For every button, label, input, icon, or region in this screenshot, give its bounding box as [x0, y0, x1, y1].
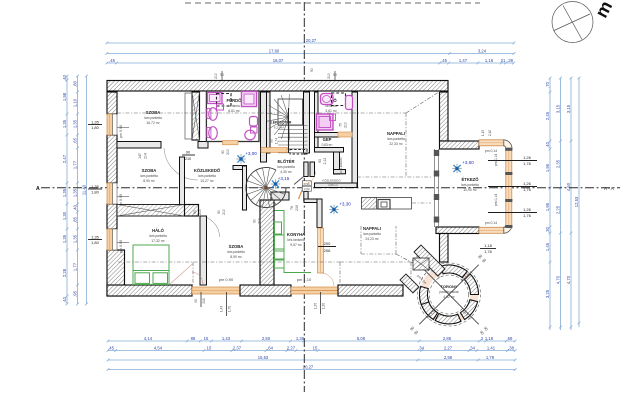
- svg-text:22,33 m²: 22,33 m²: [389, 142, 403, 146]
- svg-text:6,27 m²: 6,27 m²: [274, 126, 284, 130]
- svg-text:12,53: 12,53: [574, 196, 579, 207]
- svg-text:2,37: 2,37: [233, 345, 242, 350]
- svg-text:1,35: 1,35: [72, 234, 77, 243]
- konyha door leaf orange: [299, 189, 303, 199]
- outer wall bottom segment 3: [338, 285, 403, 296]
- svg-text:210: 210: [344, 122, 348, 128]
- svg-text:,38: ,38: [508, 345, 514, 350]
- svg-text:3,25: 3,25: [545, 289, 550, 298]
- svg-text:21: 21: [501, 58, 506, 63]
- svg-text:15: 15: [313, 345, 318, 350]
- left dimension line 1: [66, 76, 68, 304]
- svg-text:3,24: 3,24: [478, 48, 487, 53]
- svg-text:,40: ,40: [72, 204, 77, 210]
- window W2 left: [107, 183, 113, 204]
- svg-text:,45: ,45: [441, 58, 447, 63]
- nappali dashed line y177: [357, 176, 431, 178]
- thick wall V3 konyha: [260, 200, 274, 285]
- svg-text:padlóburkolat: padlóburkolat: [439, 290, 458, 294]
- svg-text:1,38: 1,38: [296, 336, 305, 341]
- dashed appliance box: [217, 94, 232, 107]
- svg-text:SZOBA: SZOBA: [142, 168, 157, 173]
- svg-text:2,28: 2,28: [62, 268, 67, 277]
- svg-text:17,60: 17,60: [269, 48, 280, 53]
- svg-text:1,76: 1,76: [523, 187, 532, 192]
- svg-text:KÖZLEKEDŐ: KÖZLEKEDŐ: [322, 178, 341, 183]
- svg-text:A: A: [36, 186, 40, 192]
- bottom door sill D1 (pm 0,90): [192, 287, 240, 294]
- top dimension line 2 (17,60 / 3,24): [107, 53, 514, 55]
- svg-text:GÉP: GÉP: [323, 137, 332, 142]
- svg-text:2,98: 2,98: [444, 355, 453, 360]
- etkezo protrusion bottom wall: [436, 227, 479, 234]
- svg-text:2,10: 2,10: [488, 130, 492, 136]
- svg-text:lam.parketta: lam.parketta: [144, 116, 162, 120]
- wall H5 under kozlekedo2: [315, 183, 358, 188]
- chimney shaft wall V1: [192, 92, 200, 140]
- glass wall right of nappali: [434, 149, 436, 227]
- interior wall H1: [117, 142, 161, 149]
- svg-text:1,98: 1,98: [62, 92, 67, 101]
- kitchen counter green: [275, 211, 312, 273]
- etkezo orange wall right bar: [506, 149, 512, 227]
- svg-text:4,60: 4,60: [566, 182, 571, 191]
- 1,36 door box: [302, 181, 311, 186]
- svg-text:8,90 m²: 8,90 m²: [143, 179, 155, 183]
- left dimension line 3: [86, 76, 88, 304]
- svg-text:,80: ,80: [72, 80, 77, 86]
- wall V6 right of stair: [304, 92, 310, 153]
- svg-text:2,06 m²: 2,06 m²: [328, 183, 338, 187]
- svg-text:1,80: 1,80: [91, 190, 100, 195]
- svg-text:1,35: 1,35: [62, 119, 67, 128]
- svg-text:1,76: 1,76: [484, 249, 493, 254]
- svg-text:4,70: 4,70: [555, 275, 560, 284]
- svg-text:NAPPALI: NAPPALI: [387, 131, 405, 136]
- svg-text:5,06: 5,06: [357, 336, 366, 341]
- svg-text:8,90 m²: 8,90 m²: [230, 255, 242, 259]
- svg-text:1,35: 1,35: [91, 119, 100, 124]
- svg-text:214: 214: [144, 153, 148, 159]
- furdo room walls: [206, 91, 259, 142]
- svg-text:10,90 m²: 10,90 m²: [463, 188, 477, 192]
- svg-text:3,15: 3,15: [555, 104, 560, 113]
- svg-text:3,15: 3,15: [566, 104, 571, 113]
- svg-text:2,25: 2,25: [555, 205, 560, 214]
- svg-text:2,62: 2,62: [304, 187, 310, 191]
- svg-text:1,35: 1,35: [91, 234, 100, 239]
- svg-text:90: 90: [270, 139, 274, 143]
- svg-text:90: 90: [217, 210, 221, 214]
- svg-text:2,47: 2,47: [62, 154, 67, 163]
- futo shower: [317, 114, 334, 130]
- svg-text:90: 90: [186, 151, 190, 155]
- svg-text:4,30 m²: 4,30 m²: [280, 170, 292, 174]
- svg-text:88: 88: [191, 336, 196, 341]
- svg-text:2,12: 2,12: [323, 158, 327, 165]
- small pink cabinet: [217, 104, 224, 110]
- toilet: [251, 127, 258, 133]
- svg-text:1,77: 1,77: [72, 160, 77, 169]
- furdo door sill in H1: [223, 141, 239, 145]
- svg-text:,70: ,70: [545, 81, 550, 87]
- bottom dimension line 4 (20,27): [108, 369, 515, 371]
- svg-text:24,23 m²: 24,23 m²: [365, 237, 379, 241]
- svg-text:ELŐTÉR: ELŐTÉR: [278, 159, 295, 164]
- svg-text:3,61 m²: 3,61 m²: [325, 109, 337, 113]
- svg-text:,34: ,34: [418, 345, 424, 350]
- svg-text:4,54: 4,54: [154, 345, 163, 350]
- outer wall right upper: [440, 92, 449, 141]
- svg-text:1,74: 1,74: [275, 138, 279, 144]
- svg-text:lam.parketta: lam.parketta: [461, 183, 479, 187]
- svg-text:1,77: 1,77: [72, 262, 77, 271]
- svg-text:,45: ,45: [109, 58, 115, 63]
- svg-text:4,14: 4,14: [144, 336, 153, 341]
- tower neck wall lower: [400, 274, 419, 293]
- bottom dimension line 1: [108, 340, 515, 342]
- futo basin: [346, 96, 353, 110]
- H1 door arc: [164, 148, 198, 180]
- svg-text:pm 0,90: pm 0,90: [119, 240, 123, 253]
- svg-text:+3,00: +3,00: [245, 151, 257, 156]
- bath vanity: [208, 93, 223, 104]
- nappali lower dashed rect: [340, 261, 411, 263]
- svg-text:4,70: 4,70: [566, 275, 571, 284]
- svg-text:,30: ,30: [545, 226, 550, 232]
- elevation marker +3,15: [271, 179, 281, 189]
- svg-text:,40: ,40: [62, 74, 67, 80]
- svg-text:1,43: 1,43: [220, 306, 224, 312]
- svg-text:pm 0,14: pm 0,14: [485, 149, 497, 153]
- right dimension line 4 (overall): [578, 78, 580, 327]
- svg-text:pm 1,10: pm 1,10: [297, 277, 312, 282]
- svg-text:75: 75: [339, 123, 343, 127]
- svg-text:210: 210: [198, 209, 202, 215]
- svg-text:2,86: 2,86: [443, 336, 452, 341]
- kneewall dashed line lower: [118, 261, 340, 263]
- bed halo: [133, 245, 169, 285]
- faint top cropped line: [185, 2, 480, 4]
- svg-text:kéz.kerámia: kéz.kerámia: [287, 238, 304, 242]
- futo toilet: [321, 94, 334, 105]
- wall V5 left of stair: [261, 92, 267, 162]
- stair room door orange: [261, 148, 287, 153]
- svg-text:6,61 m²: 6,61 m²: [228, 109, 240, 113]
- svg-text:59: 59: [508, 336, 513, 341]
- svg-text:1,30: 1,30: [62, 211, 67, 220]
- svg-text:1,15: 1,15: [481, 130, 485, 136]
- left dimension line 2: [77, 76, 79, 304]
- svg-text:,45: ,45: [108, 345, 114, 350]
- svg-text:1,95: 1,95: [545, 202, 550, 211]
- nappali left wall V8: [352, 92, 358, 188]
- svg-text:90: 90: [221, 150, 225, 154]
- outer wall top: [107, 81, 448, 92]
- bottom dimension line 2: [108, 350, 515, 352]
- svg-text:15,53: 15,53: [258, 355, 269, 360]
- futo dashed box: [332, 93, 346, 106]
- eloter right wall jambs: [304, 162, 308, 177]
- svg-text:1,80: 1,80: [91, 240, 100, 245]
- section line vertical: [303, 2, 305, 392]
- futo/gep left wall V7: [315, 92, 319, 152]
- section line A-A horizontal: [41, 187, 620, 189]
- szoba1 cupboard: [185, 93, 192, 139]
- svg-text:,40: ,40: [62, 296, 67, 302]
- kneewall dashed diagonal to corner: [406, 91, 441, 113]
- svg-text:1,70: 1,70: [228, 306, 232, 312]
- svg-text:1,16: 1,16: [485, 58, 494, 63]
- svg-text:KÖZLEKEDŐ: KÖZLEKEDŐ: [338, 157, 343, 175]
- svg-text:1,80: 1,80: [91, 125, 100, 130]
- svg-text:2,50: 2,50: [262, 336, 271, 341]
- svg-text:ÉTKEZŐ: ÉTKEZŐ: [462, 177, 480, 182]
- top dimension line 3 (,45 16,07 ...): [107, 62, 514, 64]
- svg-text:90: 90: [310, 68, 314, 72]
- elevation marker +3,60: [452, 164, 462, 174]
- svg-text:210: 210: [327, 73, 331, 79]
- interior wall V2: [200, 216, 207, 285]
- dashed box right of stair door: [290, 150, 307, 155]
- svg-text:210: 210: [222, 209, 226, 215]
- right dimension line 2: [560, 78, 562, 330]
- svg-text:1,35: 1,35: [72, 188, 77, 197]
- svg-text:210: 210: [202, 298, 206, 304]
- svg-text:,64: ,64: [267, 345, 273, 350]
- svg-text:,95: ,95: [72, 290, 77, 296]
- svg-text:1,35: 1,35: [314, 303, 318, 309]
- svg-text:+3,60: +3,60: [462, 160, 474, 165]
- svg-text:10,27 m²: 10,27 m²: [200, 179, 214, 183]
- svg-text:+3,30: +3,30: [339, 202, 351, 207]
- svg-text:1,18: 1,18: [484, 243, 493, 248]
- outer wall bottom segment 2: [240, 285, 291, 296]
- svg-text:90: 90: [253, 219, 257, 223]
- svg-text:16,72 m²: 16,72 m²: [146, 121, 160, 125]
- window W1 left (135/180): [107, 114, 113, 135]
- svg-text:,38: ,38: [507, 58, 513, 63]
- eloter east door leaf: [294, 177, 304, 185]
- svg-text:1,79: 1,79: [486, 355, 495, 360]
- svg-text:HÁLÓ: HÁLÓ: [152, 228, 165, 233]
- svg-text:90: 90: [193, 210, 197, 214]
- neck x-shaft: [413, 258, 429, 270]
- svg-text:,85: ,85: [72, 216, 77, 222]
- svg-text:16,07: 16,07: [273, 58, 284, 63]
- etkezo orange wall top bar: [479, 140, 504, 146]
- svg-text:1,76: 1,76: [523, 161, 532, 166]
- compass rose: [552, 2, 593, 43]
- svg-text:LÉPCSŐTÉR: LÉPCSŐTÉR: [271, 120, 292, 125]
- shower cabin: [242, 92, 257, 107]
- eloter west wall V4: [233, 166, 247, 170]
- svg-text:76: 76: [290, 206, 294, 210]
- svg-text:1,18: 1,18: [485, 336, 494, 341]
- svg-text:15: 15: [204, 336, 209, 341]
- svg-text:210: 210: [214, 73, 218, 79]
- konyha top wall left piece: [271, 192, 289, 200]
- svg-text:lam.parketta: lam.parketta: [363, 232, 381, 236]
- svg-text:SZOBA: SZOBA: [146, 110, 161, 115]
- svg-text:1,26: 1,26: [523, 181, 532, 186]
- gep bottom wall: [315, 148, 344, 153]
- svg-text:1,43: 1,43: [222, 336, 231, 341]
- konyha top wall: [304, 199, 322, 203]
- interior wall H2 with shaft: [117, 205, 185, 217]
- svg-text:90: 90: [194, 299, 198, 303]
- right dimension line 3: [570, 78, 572, 330]
- svg-text:1,26: 1,26: [523, 207, 532, 212]
- svg-text:9,57 m²: 9,57 m²: [290, 243, 302, 247]
- svg-text:210: 210: [295, 205, 299, 211]
- etkezo protrusion top wall: [440, 141, 480, 149]
- svg-text:200: 200: [324, 241, 331, 246]
- svg-text:93: 93: [318, 159, 322, 163]
- svg-text:pm 0,14: pm 0,14: [485, 221, 497, 225]
- kneewall dashed line upper: [117, 112, 406, 114]
- window W3 left: [107, 229, 113, 250]
- svg-text:pm 0,90: pm 0,90: [219, 277, 234, 282]
- door arcs: [192, 272, 203, 284]
- svg-text:210: 210: [258, 218, 262, 224]
- kozlekedo2 L wall: [334, 152, 340, 174]
- svg-text:lam.parketta: lam.parketta: [140, 174, 158, 178]
- kitchen island: [362, 198, 412, 210]
- svg-text:pm 0,14: pm 0,14: [494, 154, 498, 166]
- kneewall dashed vertical: [405, 113, 407, 177]
- elevation marker +3,00: [236, 154, 246, 164]
- napozo dashed region: [360, 226, 362, 254]
- svg-text:11,40: 11,40: [81, 184, 86, 195]
- svg-text:147: 147: [138, 153, 142, 159]
- outer wall right lower (to tower): [440, 234, 449, 263]
- H2 door arc into halo: [199, 216, 220, 237]
- svg-text:lam.parketta: lam.parketta: [277, 165, 295, 169]
- svg-text:pm 0,90: pm 0,90: [119, 125, 123, 138]
- svg-text:1,47: 1,47: [459, 58, 468, 63]
- svg-text:20,27: 20,27: [306, 38, 317, 43]
- right dimension line 1: [549, 78, 551, 330]
- outer wall left (3 segments between windows): [107, 92, 117, 114]
- svg-text:lam.parketta: lam.parketta: [149, 234, 167, 238]
- svg-text:FÜRDŐ: FÜRDŐ: [227, 98, 243, 103]
- svg-text:1,45: 1,45: [545, 242, 550, 251]
- svg-text:210: 210: [226, 149, 230, 155]
- svg-text:2,27: 2,27: [287, 345, 296, 350]
- svg-text:2,35: 2,35: [555, 159, 560, 168]
- svg-text:2,27: 2,27: [444, 345, 453, 350]
- svg-text:210: 210: [185, 157, 191, 161]
- outer wall bottom segment 1: [107, 285, 192, 296]
- top dimension line 1 (20,27): [107, 42, 514, 44]
- svg-text:1,95: 1,95: [545, 163, 550, 172]
- washbasin ovals: [207, 109, 211, 119]
- svg-text:15: 15: [207, 345, 212, 350]
- svg-text:206: 206: [324, 248, 331, 253]
- svg-text:kerámia: kerámia: [228, 104, 240, 108]
- svg-text:1,35: 1,35: [62, 234, 67, 243]
- etkezo rounded corner bottom: [504, 226, 512, 234]
- corridor west wall: [180, 157, 185, 211]
- svg-text:1,26: 1,26: [523, 155, 532, 160]
- konyha right glass band: [318, 228, 324, 273]
- svg-text:,34: ,34: [469, 345, 475, 350]
- svg-text:1,76: 1,76: [523, 213, 532, 218]
- svg-text:,40: ,40: [545, 141, 550, 147]
- svg-text:17,32 m²: 17,32 m²: [151, 239, 165, 243]
- svg-text:A - A: A - A: [604, 186, 615, 191]
- svg-text:0,83 m²: 0,83 m²: [322, 143, 333, 147]
- 2,62 box: [302, 186, 311, 191]
- spiral stair: [246, 168, 286, 208]
- bottom door sill D2 (pm 1,10): [291, 287, 338, 294]
- tower neck wall upper: [414, 245, 445, 276]
- svg-text:1,10: 1,10: [72, 98, 77, 107]
- svg-text:1,30: 1,30: [322, 303, 326, 309]
- futo door orange: [338, 132, 352, 137]
- svg-text:lam.parketta: lam.parketta: [227, 250, 245, 254]
- svg-text:+3,15: +3,15: [278, 176, 290, 181]
- svg-text:TORONY: TORONY: [440, 284, 457, 289]
- svg-text:1,41: 1,41: [487, 345, 496, 350]
- halo dashed vertical: [192, 262, 194, 285]
- svg-text:lam.parketta: lam.parketta: [198, 174, 216, 178]
- tower torony: [418, 263, 481, 326]
- svg-text:pm 0,14: pm 0,14: [494, 194, 498, 206]
- labels under bottom wall: [200, 292, 202, 307]
- svg-text:1,35: 1,35: [72, 119, 77, 128]
- svg-text:KÖZLEKEDŐ: KÖZLEKEDŐ: [194, 168, 221, 173]
- wall H4 futo/gep: [315, 133, 340, 138]
- stair room walls: [267, 92, 271, 153]
- bottom dimension line 3: [108, 359, 515, 361]
- svg-text:,65: ,65: [72, 137, 77, 143]
- svg-text:KONYHA: KONYHA: [287, 232, 305, 237]
- svg-text:lam.parketta: lam.parketta: [387, 137, 405, 141]
- bidet: [250, 117, 258, 127]
- stair winder: [267, 94, 308, 153]
- svg-text:4,02 m²: 4,02 m²: [443, 295, 455, 299]
- etkezo rounded corner top: [504, 140, 512, 148]
- svg-text:SZOBA: SZOBA: [229, 244, 244, 249]
- etkezo window frames: [505, 148, 512, 151]
- svg-text:1,35: 1,35: [62, 188, 67, 197]
- etkezo orange wall bottom bar: [479, 227, 504, 233]
- halo door swing diagonal: [170, 263, 194, 284]
- elevation marker +3,30: [329, 205, 339, 215]
- svg-text:2,45: 2,45: [545, 111, 550, 120]
- svg-text:NAPPALI: NAPPALI: [363, 226, 381, 231]
